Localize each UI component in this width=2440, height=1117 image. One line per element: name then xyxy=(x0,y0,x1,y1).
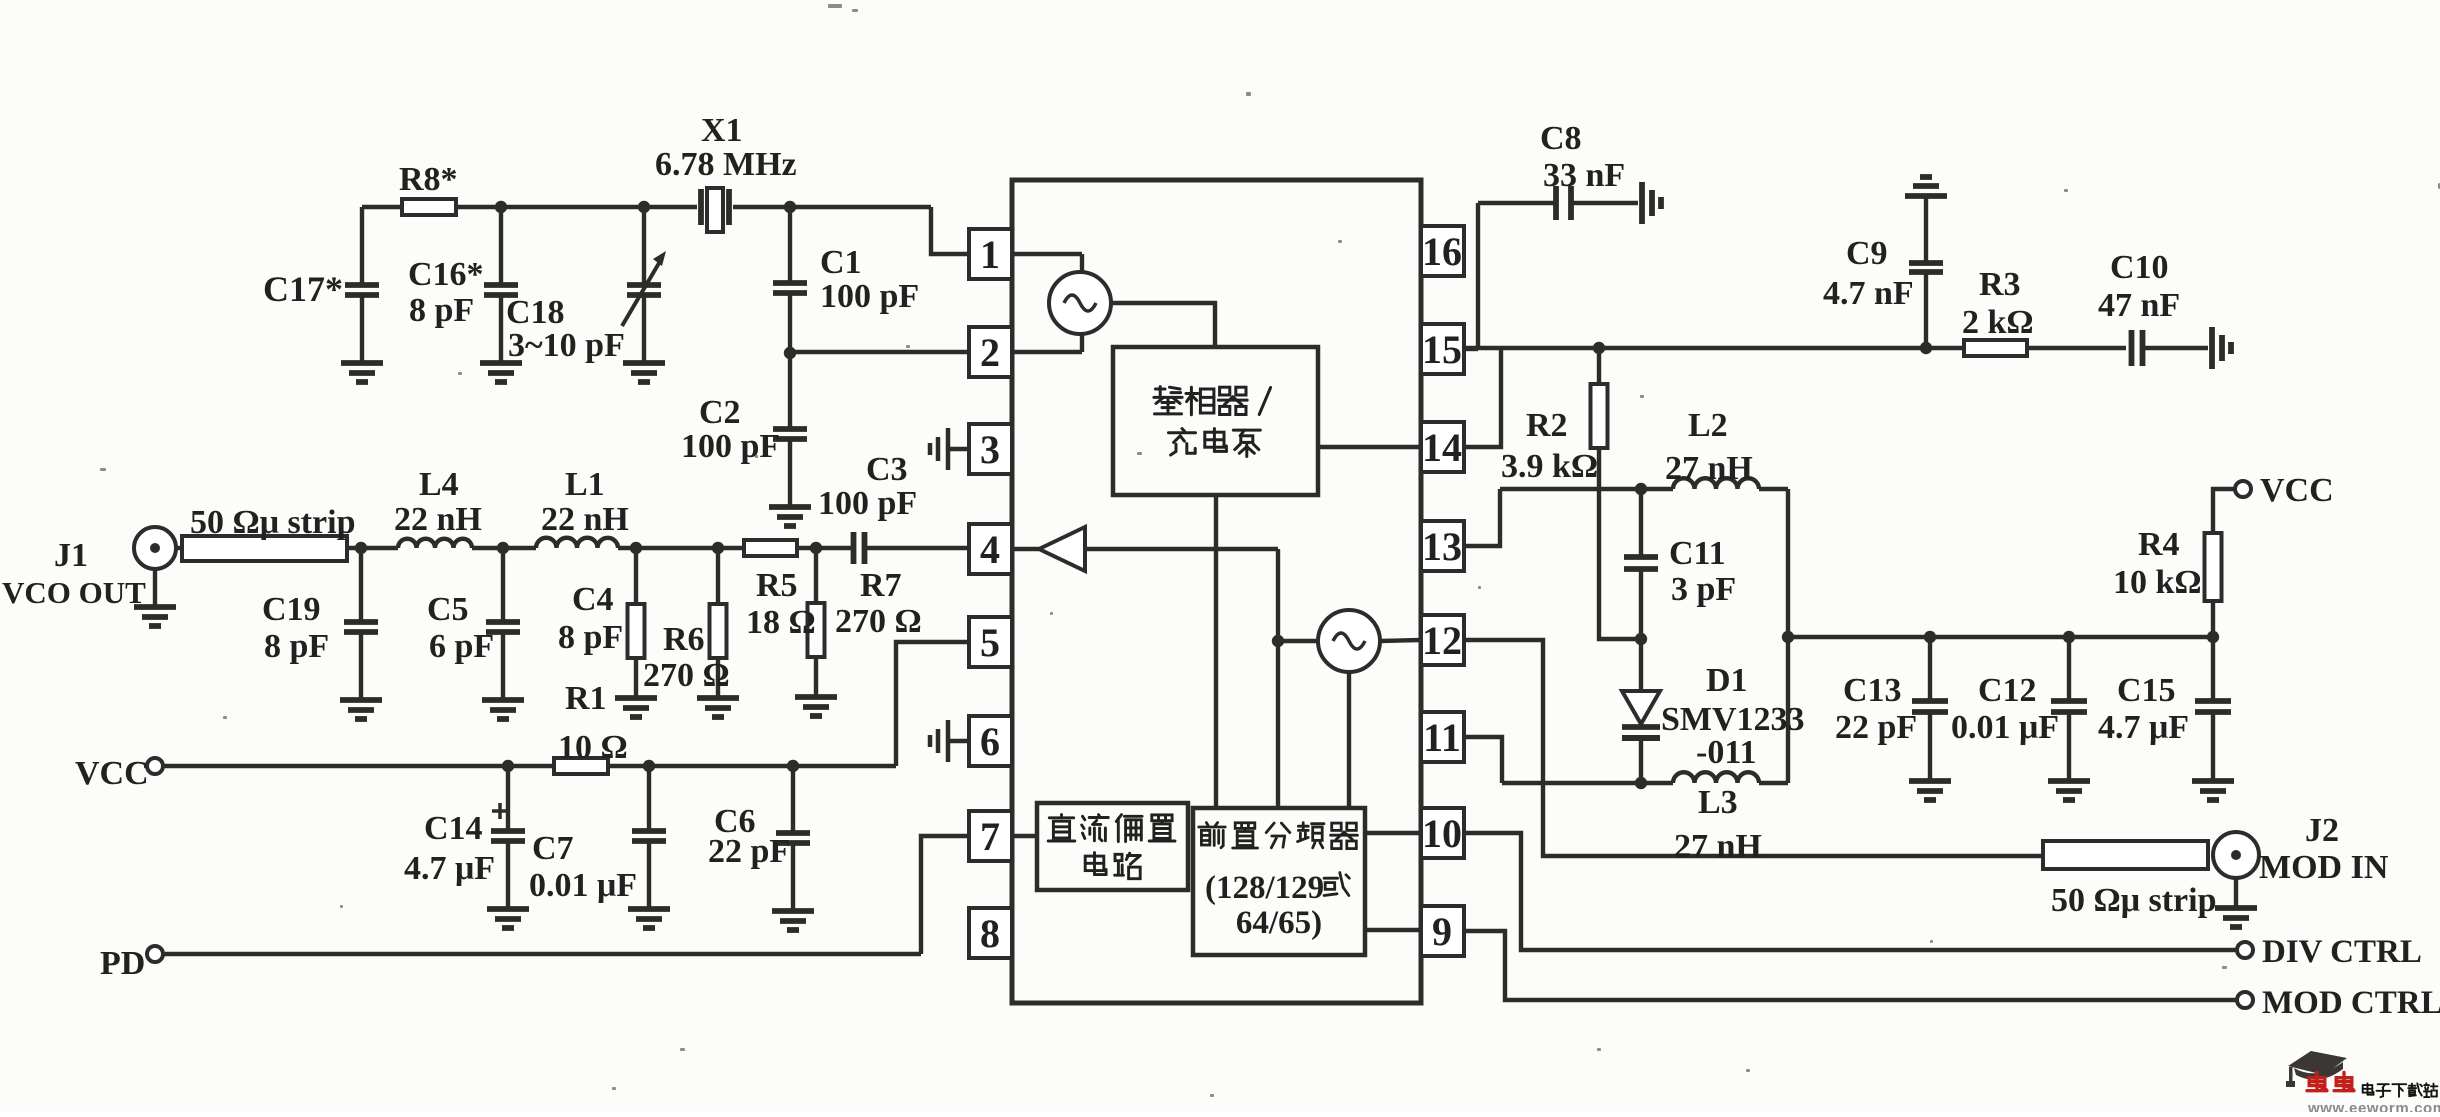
svg-text:5: 5 xyxy=(980,620,1000,665)
svg-text:6.78 MHz: 6.78 MHz xyxy=(655,146,797,183)
svg-text:6: 6 xyxy=(980,719,1000,764)
svg-text:9: 9 xyxy=(1432,909,1452,954)
svg-text:1: 1 xyxy=(980,232,1000,277)
svg-text:C12: C12 xyxy=(1978,672,2037,709)
svg-text:VCO OUT: VCO OUT xyxy=(2,575,146,610)
svg-text:R5: R5 xyxy=(756,567,798,604)
svg-text:J2: J2 xyxy=(2305,812,2339,849)
svg-text:0.01 μF: 0.01 μF xyxy=(1951,709,2059,746)
svg-text:13: 13 xyxy=(1422,524,1462,569)
svg-text:11: 11 xyxy=(1423,715,1461,760)
svg-text:270 Ω: 270 Ω xyxy=(835,603,922,640)
svg-text:L3: L3 xyxy=(1698,784,1738,821)
svg-text:C7: C7 xyxy=(532,830,574,867)
svg-text:C13: C13 xyxy=(1843,672,1902,709)
svg-text:27 nH: 27 nH xyxy=(1674,828,1762,865)
svg-text:50 Ωμ strip: 50 Ωμ strip xyxy=(2051,882,2217,919)
svg-text:10: 10 xyxy=(1422,811,1462,856)
svg-text:C14: C14 xyxy=(424,810,483,847)
svg-text:DIV CTRL: DIV CTRL xyxy=(2262,934,2422,970)
svg-text:3.9 kΩ: 3.9 kΩ xyxy=(1501,448,1598,485)
svg-text:R3: R3 xyxy=(1979,266,2021,303)
svg-text:10 Ω: 10 Ω xyxy=(558,729,628,766)
svg-text:100 pF: 100 pF xyxy=(818,485,917,522)
svg-text:3 pF: 3 pF xyxy=(1671,571,1736,608)
svg-text:C8: C8 xyxy=(1540,120,1582,157)
svg-text:16: 16 xyxy=(1422,229,1462,274)
svg-text:100 pF: 100 pF xyxy=(820,278,919,315)
svg-text:L2: L2 xyxy=(1688,407,1728,444)
svg-text:4.7 nF: 4.7 nF xyxy=(1823,275,1914,312)
svg-text:J1: J1 xyxy=(54,537,88,574)
svg-text:C11: C11 xyxy=(1669,535,1726,572)
svg-text:3: 3 xyxy=(980,427,1000,472)
svg-text:R7: R7 xyxy=(860,567,902,604)
svg-text:D1: D1 xyxy=(1706,662,1748,699)
svg-text:64/65): 64/65) xyxy=(1236,905,1322,941)
svg-text:www.eeworm.com: www.eeworm.com xyxy=(2307,1100,2440,1112)
svg-text:7: 7 xyxy=(980,814,1000,859)
svg-text:R1: R1 xyxy=(565,680,607,717)
svg-text:C5: C5 xyxy=(427,591,469,628)
svg-text:2: 2 xyxy=(980,330,1000,375)
svg-text:10 kΩ: 10 kΩ xyxy=(2113,564,2202,601)
svg-text:12: 12 xyxy=(1422,618,1462,663)
svg-text:R2: R2 xyxy=(1526,407,1568,444)
svg-text:22 nH: 22 nH xyxy=(394,501,482,538)
svg-text:18 Ω: 18 Ω xyxy=(746,604,816,641)
svg-text:47 nF: 47 nF xyxy=(2098,287,2180,324)
svg-text:27 nH: 27 nH xyxy=(1665,450,1753,487)
svg-text:-011: -011 xyxy=(1696,734,1756,771)
svg-text:L1: L1 xyxy=(565,466,605,503)
svg-text:C19: C19 xyxy=(262,591,321,628)
svg-text:100 pF: 100 pF xyxy=(681,428,780,465)
svg-text:MOD CTRL: MOD CTRL xyxy=(2262,985,2440,1021)
svg-text:4.7 μF: 4.7 μF xyxy=(404,850,495,887)
svg-text:0.01 μF: 0.01 μF xyxy=(529,867,637,904)
svg-text:2 kΩ: 2 kΩ xyxy=(1962,304,2034,341)
svg-text:8 pF: 8 pF xyxy=(558,619,623,656)
svg-text:VCC: VCC xyxy=(2260,472,2334,509)
svg-text:50 Ωμ strip: 50 Ωμ strip xyxy=(190,504,356,541)
svg-text:R8*: R8* xyxy=(399,161,458,198)
svg-text:L4: L4 xyxy=(419,466,459,503)
svg-text:8 pF: 8 pF xyxy=(409,292,474,329)
svg-text:VCC: VCC xyxy=(75,755,149,792)
svg-text:8 pF: 8 pF xyxy=(264,628,329,665)
svg-text:(128/129: (128/129 xyxy=(1205,870,1324,906)
svg-text:R4: R4 xyxy=(2138,526,2180,563)
svg-text:C1: C1 xyxy=(820,244,862,281)
svg-text:4: 4 xyxy=(980,527,1000,572)
svg-text:MOD IN: MOD IN xyxy=(2259,849,2389,886)
svg-text:C9: C9 xyxy=(1846,235,1888,272)
svg-text:22 pF: 22 pF xyxy=(1835,709,1917,746)
svg-text:22 nH: 22 nH xyxy=(541,501,629,538)
svg-text:C18: C18 xyxy=(506,294,565,331)
svg-text:C10: C10 xyxy=(2110,249,2169,286)
svg-text:270 Ω: 270 Ω xyxy=(643,657,730,694)
svg-text:C16*: C16* xyxy=(408,256,484,293)
svg-text:14: 14 xyxy=(1422,425,1462,470)
svg-text:R6: R6 xyxy=(663,621,705,658)
svg-text:C4: C4 xyxy=(572,581,614,618)
svg-text:33 nF: 33 nF xyxy=(1543,157,1625,194)
svg-text:4.7 μF: 4.7 μF xyxy=(2098,709,2189,746)
svg-text:3~10 pF: 3~10 pF xyxy=(508,327,625,364)
svg-text:C15: C15 xyxy=(2117,672,2176,709)
svg-text:8: 8 xyxy=(980,911,1000,956)
svg-text:PD: PD xyxy=(100,945,145,982)
svg-text:X1: X1 xyxy=(701,112,743,149)
svg-text:15: 15 xyxy=(1422,327,1462,372)
svg-text:22 pF: 22 pF xyxy=(708,833,790,870)
svg-text:C3: C3 xyxy=(866,451,908,488)
svg-text:C2: C2 xyxy=(699,394,741,431)
svg-text:C17*: C17* xyxy=(263,269,343,309)
svg-text:SMV1233: SMV1233 xyxy=(1661,701,1805,738)
svg-text:6 pF: 6 pF xyxy=(429,628,494,665)
